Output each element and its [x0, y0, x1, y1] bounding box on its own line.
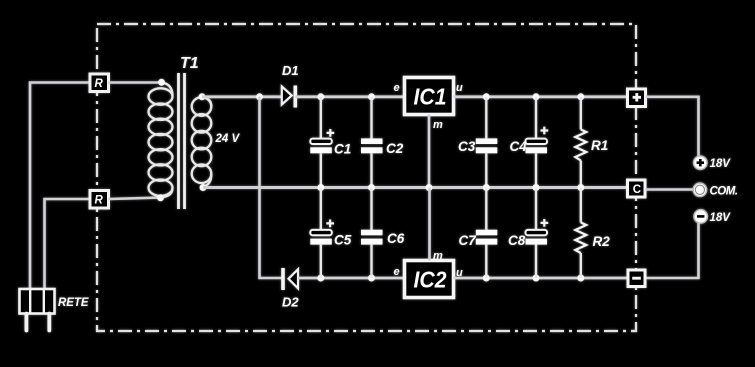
svg-text:u: u: [456, 82, 463, 94]
wire IC2 m pin to COM rail: [428, 188, 431, 261]
node C1 bottom on COM: [317, 184, 324, 191]
svg-text:C2: C2: [386, 141, 404, 156]
svg-text:18V: 18V: [710, 158, 732, 170]
node C3 bottom on COM: [483, 184, 490, 191]
svg-text:IC2: IC2: [414, 267, 447, 293]
transformer T1 primary winding: [149, 83, 173, 198]
svg-text:e: e: [394, 266, 400, 278]
power terminal -18V: [694, 210, 708, 224]
mains plug RETE: [20, 289, 55, 331]
node C5 bottom: [317, 275, 324, 282]
resistor R2: [575, 188, 586, 279]
resistor R1: [575, 97, 586, 188]
svg-text:D1: D1: [282, 63, 299, 78]
dash-dot enclosure border: [97, 24, 636, 331]
wire IC1 m pin to COM rail: [428, 115, 431, 188]
capacitor C5 electrolytic: [310, 188, 334, 279]
svg-text:C6: C6: [387, 231, 405, 246]
svg-text:IC1: IC1: [414, 84, 447, 110]
svg-text:D2: D2: [282, 295, 299, 310]
svg-text:C8: C8: [508, 233, 526, 248]
terminal box C: [628, 180, 646, 197]
svg-text:C3: C3: [458, 139, 476, 154]
node secondary bottom: [200, 184, 207, 191]
wire IC2 output rail: [454, 277, 629, 280]
svg-text:T1: T1: [180, 55, 199, 72]
node C2 bottom on COM: [368, 184, 375, 191]
svg-text:C5: C5: [334, 233, 352, 248]
svg-text:m: m: [433, 250, 443, 262]
capacitor C1 electrolytic: [310, 97, 334, 188]
wire terminal - to output circle: [646, 223, 699, 278]
capacitor C7: [476, 188, 498, 279]
svg-text:C7: C7: [459, 233, 478, 248]
wire mains second vertical + horizontal to fuse R bottom: [45, 199, 90, 288]
terminal box -: [628, 270, 645, 287]
node R2 bottom: [577, 275, 584, 282]
fuse R bottom: [90, 191, 109, 209]
node C6 bottom: [368, 275, 375, 282]
terminal box +: [628, 89, 646, 107]
wire terminal C to COM circle: [646, 188, 694, 191]
wire COM rail: [203, 186, 629, 189]
diode D1: [282, 86, 296, 108]
node C2 top: [368, 93, 375, 100]
op-amp regulator IC1: [405, 78, 454, 115]
wire mains left vertical + horizontal to fuse R top: [30, 83, 90, 289]
node C4 bottom on COM: [533, 184, 540, 191]
op-amp regulator IC2: [405, 261, 454, 298]
capacitor C3: [476, 97, 498, 188]
svg-text:R2: R2: [593, 234, 611, 249]
svg-text:e: e: [394, 82, 400, 94]
node secondary top: [199, 93, 206, 100]
wire D1 cathode to IC1 input: [295, 95, 404, 98]
transformer T1 core: [179, 73, 185, 209]
svg-text:18V: 18V: [710, 212, 732, 224]
capacitor C6: [361, 188, 383, 279]
fuse R top: [90, 74, 109, 92]
svg-text:COM.: COM.: [710, 186, 738, 198]
svg-text:R: R: [95, 195, 104, 207]
power terminal +18V: [694, 156, 708, 170]
svg-text:RETE: RETE: [58, 297, 89, 309]
node R1 top: [577, 93, 584, 100]
power terminal COM: [693, 183, 707, 197]
node D2 feed junction: [256, 93, 263, 100]
svg-text:C: C: [633, 184, 641, 196]
svg-text:R: R: [95, 78, 104, 90]
node C4 top: [533, 93, 540, 100]
capacitor C8 electrolytic: [526, 188, 549, 279]
node C3 top: [483, 93, 490, 100]
node primary top: [158, 79, 165, 86]
wire fuse R top to transformer primary: [108, 81, 162, 84]
wire fuse R bottom to transformer primary: [108, 198, 162, 200]
svg-text:C4: C4: [510, 139, 528, 154]
wire terminal + to output circle: [646, 97, 699, 156]
node C8 bottom: [533, 275, 540, 282]
diode D2: [283, 268, 298, 290]
svg-text:m: m: [433, 119, 443, 131]
svg-text:24 V: 24 V: [215, 133, 241, 145]
svg-text:C1: C1: [334, 142, 351, 157]
transformer T1 secondary winding 24V: [192, 97, 212, 187]
wire D2 feed down and across: [260, 97, 285, 278]
svg-text:R1: R1: [591, 138, 608, 153]
node C7 bottom: [483, 275, 490, 282]
node R1 bottom on COM: [577, 184, 584, 191]
capacitor C4 electrolytic: [526, 97, 549, 188]
wire D2 anode to IC2 input: [298, 277, 405, 280]
node regulators m on COM: [426, 184, 433, 191]
node primary bottom: [157, 194, 164, 201]
wire secondary top to D1 anode: [202, 95, 282, 98]
node C1 top: [317, 93, 324, 100]
capacitor C2: [361, 97, 383, 188]
wire IC1 output rail: [454, 95, 629, 98]
